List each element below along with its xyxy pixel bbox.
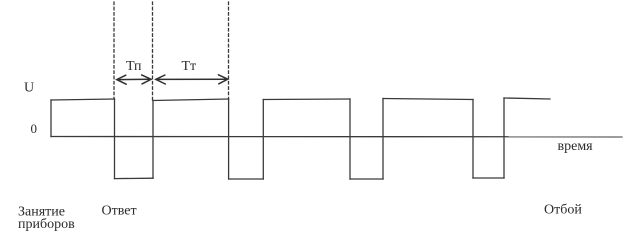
- wire rising edge 4: [503, 98, 505, 178]
- wire rising edge 1: [152, 101, 154, 179]
- wire falling edge 3: [349, 99, 351, 179]
- dashed guide line at first rising edge: [152, 2, 154, 100]
- wire falling edge 4: [472, 100, 474, 179]
- dimension arrow Tт (double headed): [156, 75, 228, 84]
- svg-text:Отбой: Отбой: [544, 203, 582, 218]
- svg-text:0: 0: [31, 121, 38, 136]
- wire high segment 4: [383, 99, 473, 100]
- wire high segment 1: [51, 99, 115, 100]
- wire falling edge 2: [228, 99, 230, 179]
- svg-text:время: время: [558, 139, 594, 154]
- wire low segment 4: [473, 177, 504, 179]
- wire rising edge at signal start: [50, 100, 52, 137]
- wire high segment 3: [263, 98, 350, 101]
- svg-text:приборов: приборов: [18, 217, 75, 232]
- wire low segment 1: [115, 177, 154, 179]
- wire falling edge 1: [114, 99, 116, 179]
- wire low segment 3: [350, 178, 383, 180]
- wire high segment 5: [504, 98, 550, 99]
- svg-text:U: U: [24, 81, 34, 96]
- wire rising edge 3: [382, 99, 384, 180]
- dimension arrow Tп (double headed): [117, 75, 152, 84]
- svg-text:Тп: Тп: [126, 59, 142, 74]
- wire rising edge 2: [262, 100, 264, 180]
- dashed guide line at second falling edge: [228, 2, 230, 99]
- dashed guide line at first falling edge: [113, 2, 115, 99]
- svg-text:Тт: Тт: [182, 59, 197, 74]
- wire high segment 2: [153, 99, 229, 101]
- svg-text:Ответ: Ответ: [102, 203, 137, 218]
- wire low segment 2: [229, 178, 264, 180]
- time axis (0 level): [51, 136, 622, 138]
